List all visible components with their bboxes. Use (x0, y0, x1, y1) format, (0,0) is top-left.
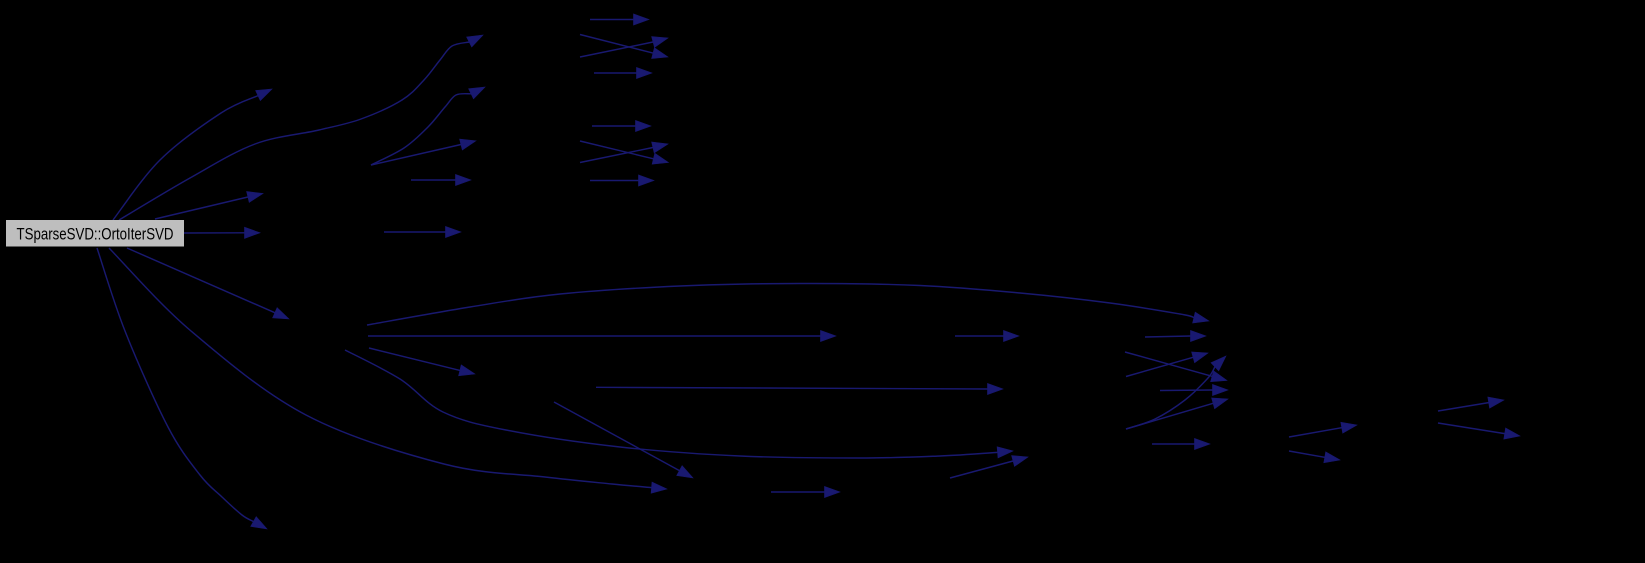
edge u3 (cross up) (580, 142, 668, 163)
edge root->n1 (up-left curve) (113, 89, 272, 220)
edge x1 (cross down) (1125, 352, 1227, 382)
edge root->n2 (long S-curve) (119, 35, 483, 220)
edge h1 (horizontal) (771, 486, 840, 497)
edge root->n6 (long low sweep) (109, 248, 667, 493)
edge root->n7 (down sweep) (97, 248, 267, 529)
edge p2 (1289, 451, 1340, 463)
edge f1 (long top curve) (367, 283, 1209, 325)
edge x2 (cross up) (1126, 352, 1208, 377)
edge t3 (cross up) (580, 37, 668, 57)
edge f2 (long horizontal) (368, 330, 836, 341)
edge n1h (horizontal) (1160, 384, 1228, 395)
edge g1 (horizontal) (955, 330, 1019, 341)
edge t2 (cross down) (580, 35, 668, 59)
node TSparseSVD::OrtoIterSVD (root box) (6, 220, 184, 247)
edge k1 (horizontal) (1152, 438, 1210, 449)
edge t4 (horizontal) (594, 67, 652, 78)
edge n9b->n10 (horizontal) (411, 174, 471, 185)
svg-text:TSparseSVD::OrtoIterSVD: TSparseSVD::OrtoIterSVD (17, 225, 174, 244)
edge n4b->n11 (horizontal) (384, 226, 461, 237)
edge t1 (horizontal) (590, 14, 649, 25)
edge n2b (diagonal up) (1126, 398, 1228, 429)
edge u4 (horizontal) (590, 175, 654, 186)
edge root->n4 (horizontal) (184, 227, 260, 238)
edge g2 (horizontal) (1145, 330, 1206, 341)
edge n3b->n9 (371, 139, 476, 165)
edge c2 (long low curve) (345, 350, 1013, 458)
edge p1 (1289, 422, 1357, 437)
edge u1 (horizontal) (592, 120, 651, 131)
edge root->n3 (155, 192, 263, 220)
edge l1 (long horizontal low) (596, 383, 1003, 394)
edge q2 (1438, 423, 1520, 439)
edge root->n5 (127, 248, 289, 319)
edge b1 (950, 456, 1028, 478)
edge q1 (1438, 397, 1504, 411)
edge f3 (369, 348, 475, 376)
edge n3b->n8 (curve up) (371, 87, 485, 165)
edge u2 (cross down) (580, 141, 669, 164)
edge s1 (steep diagonal) (554, 402, 693, 478)
edge n2c (rising curve) (1126, 356, 1226, 429)
